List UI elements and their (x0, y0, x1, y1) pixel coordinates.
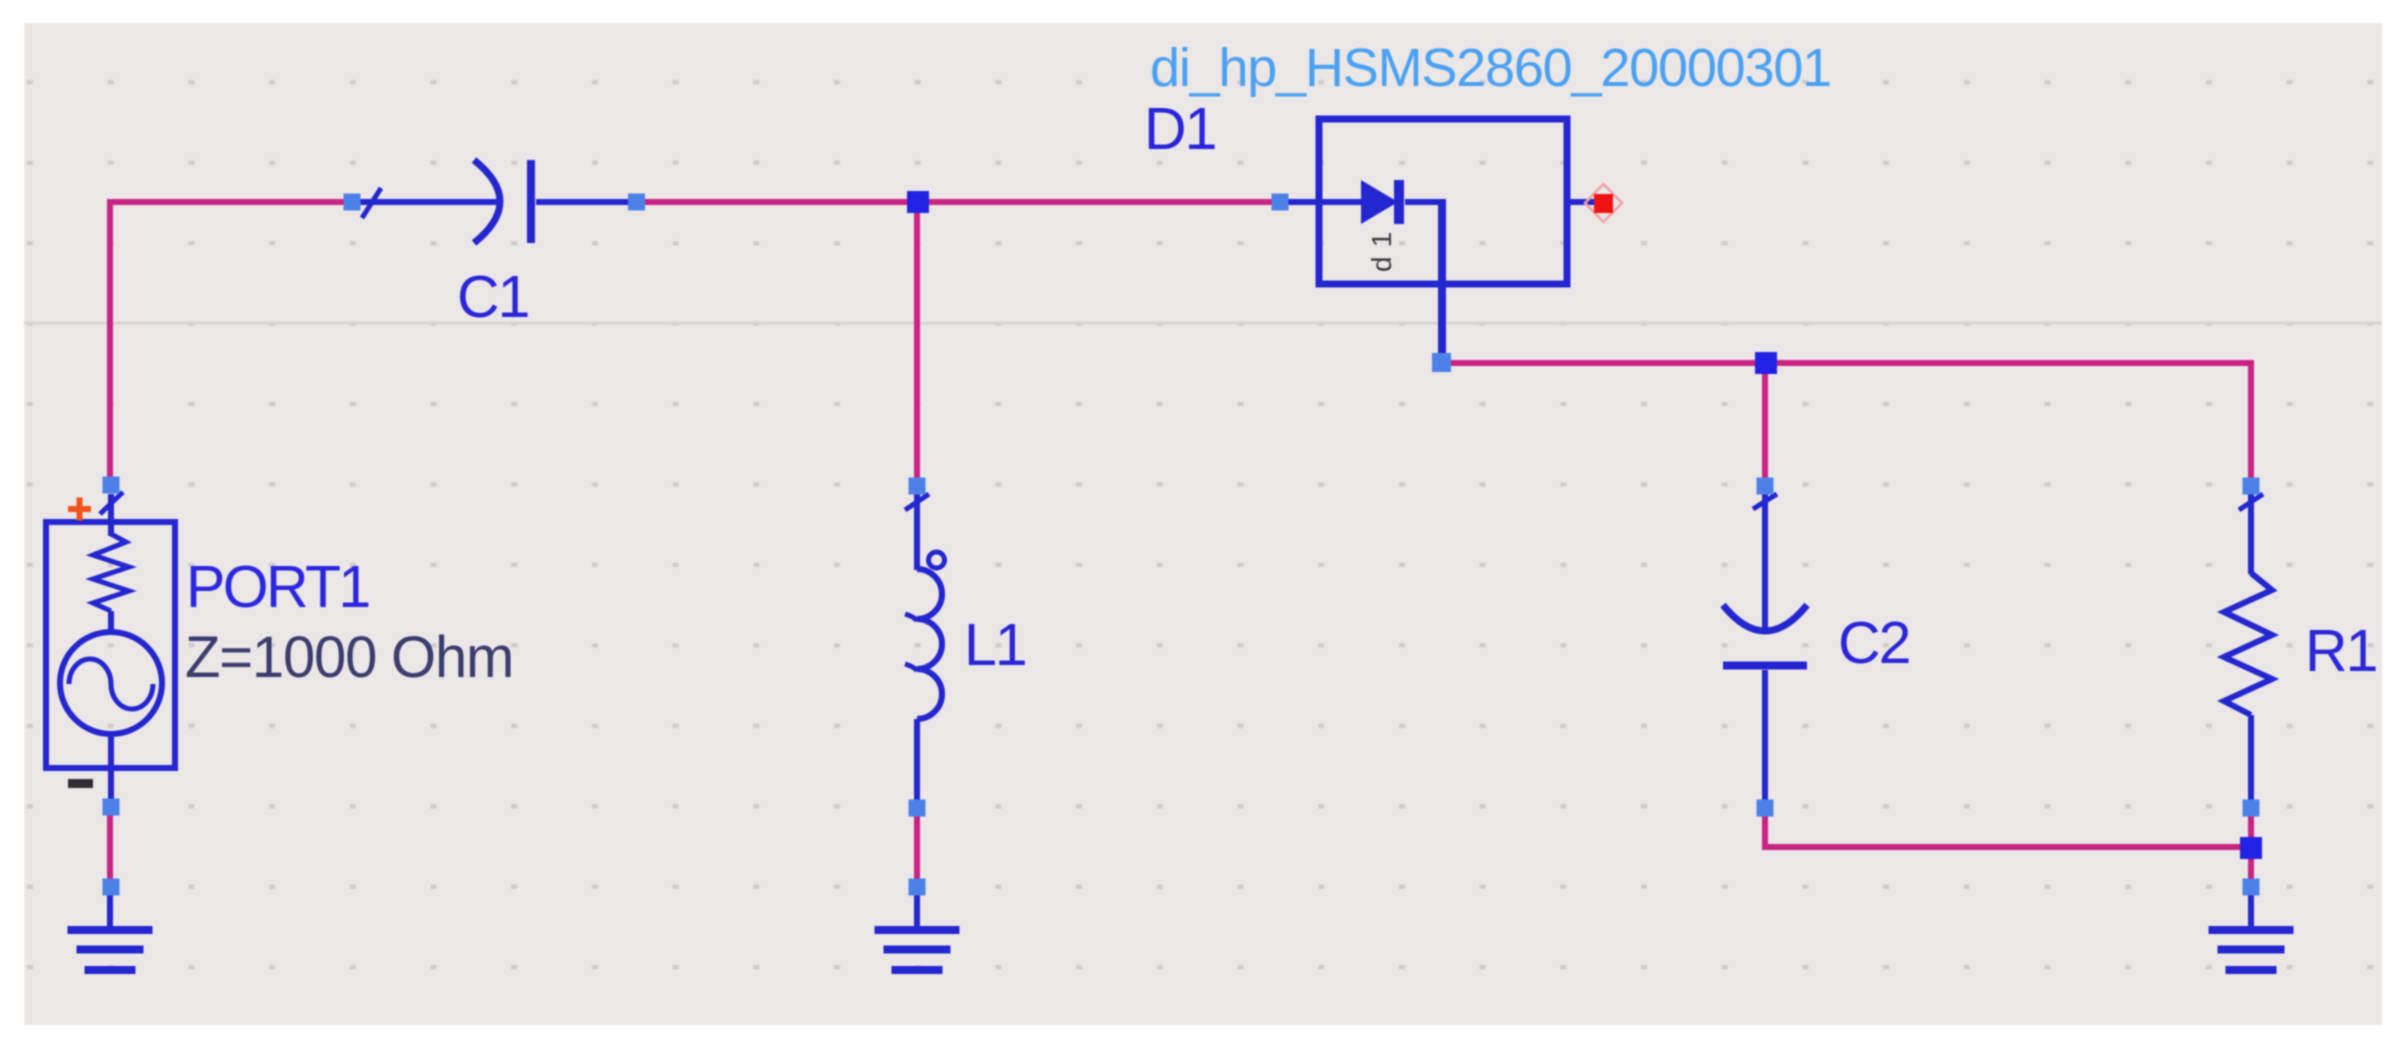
svg-text:d1: d1 (1366, 223, 1397, 272)
svg-text:Z=1000 Ohm: Z=1000 Ohm (185, 625, 513, 690)
svg-text:PORT1: PORT1 (186, 554, 369, 620)
svg-text:R1: R1 (2305, 618, 2376, 684)
svg-text:L1: L1 (964, 612, 1026, 678)
svg-text:di_hp_HSMS2860_20000301: di_hp_HSMS2860_20000301 (1150, 38, 1831, 98)
svg-text:C2: C2 (1838, 610, 1909, 676)
svg-text:C1: C1 (457, 264, 528, 330)
svg-text:D1: D1 (1144, 96, 1215, 162)
